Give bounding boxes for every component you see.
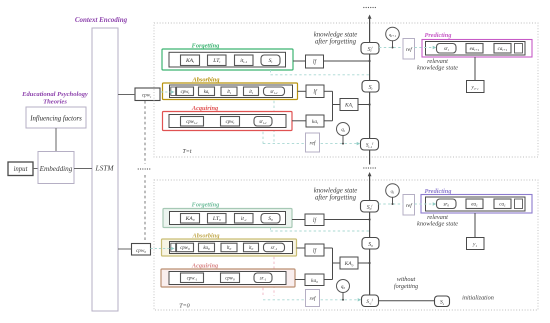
state box S_0 (362, 238, 379, 250)
wire: absorbing row to lf box (298, 90, 307, 92)
svg-text:cat+1: cat+1 (498, 47, 508, 52)
Acquiring module row (bottom) (161, 269, 295, 287)
wire: dashed time axis between cpw_t and cpw_0 (144, 101, 146, 164)
wire: q_t+1 stem (392, 41, 394, 48)
svg-text:knowledge state: knowledge state (417, 65, 458, 72)
Embedding box (38, 152, 74, 184)
state box S_t-1^f (361, 139, 379, 151)
cpw_t box (135, 88, 160, 101)
item ca_1 (494, 199, 511, 209)
wire: embedding to LSTM (74, 168, 92, 170)
item sr_0 (predicting) (437, 199, 457, 209)
wire: dashed cpw_0 to absorbing row with arrow (151, 248, 172, 250)
wire: state line S_t^f to S_t (369, 54, 371, 81)
item sr_t-1 (acquiring) (254, 117, 272, 127)
svg-text:input: input (14, 166, 29, 173)
wire: bracket joining lf and ka_0 into KA_0 (324, 247, 333, 249)
y_t+1 output box (467, 81, 485, 93)
item KA_t (181, 55, 200, 66)
Influencing factors box (26, 107, 86, 128)
svg-text:knowledge state: knowledge state (417, 221, 458, 228)
item ea_t+1 (466, 44, 483, 54)
svg-text:it0: it0 (249, 246, 254, 251)
question circle q_1 (386, 184, 400, 198)
wire: q_0 stem (342, 293, 344, 300)
wire: input to embedding (33, 168, 38, 170)
item ka_t (199, 87, 215, 96)
svg-text:after forgetting: after forgetting (315, 195, 357, 202)
item it_0 (244, 243, 259, 252)
wire: q_1 stem (392, 197, 394, 204)
wire: predicting to y_1 (474, 213, 476, 238)
Predicting module box (bottom) (421, 195, 532, 214)
dashed container box T=0 (154, 180, 538, 310)
item ea_1 (466, 199, 483, 209)
svg-text:Influencing factors: Influencing factors (29, 115, 82, 122)
item empty slot (predicting) (515, 44, 523, 54)
wire: LSTM to cpw_t (118, 94, 135, 96)
svg-text:q0: q0 (341, 285, 345, 290)
cpw_0 box (132, 244, 151, 256)
state box S_s (initialization) (435, 296, 450, 307)
item empty slot (predicting bottom) (515, 199, 523, 209)
Absorbing module row (top) (163, 83, 298, 100)
svg-text:srt-1: srt-1 (259, 120, 267, 125)
Forgetting module row (top) (162, 49, 293, 70)
ref box (right, bottom block) (403, 195, 415, 216)
item sr_-1 (264, 243, 285, 252)
svg-text:cpw0: cpw0 (225, 276, 235, 281)
question circle q_0 (337, 280, 350, 293)
item sr_t (predicting) (437, 44, 457, 54)
ellipsis between blocks (363, 167, 364, 168)
wire: dashed S_t feedback line (top) (270, 70, 272, 75)
svg-text:knowledge state: knowledge state (314, 32, 358, 39)
svg-text:cpw-1: cpw-1 (187, 276, 198, 281)
dashed container box T=t (154, 23, 538, 157)
wire: LSTM to cpw_0 (118, 248, 132, 250)
svg-text:T=t: T=t (182, 149, 191, 155)
state box S_t^f (361, 43, 379, 55)
state box S^f (initial, without forgetting) (362, 295, 379, 307)
svg-text:eat+1: eat+1 (470, 47, 480, 52)
wire: state line below S_t-1^f (369, 150, 371, 165)
item cpw_t (acquiring) (221, 117, 240, 127)
wire: acquiring row to ka_t box (292, 120, 306, 122)
svg-text:ea1: ea1 (471, 202, 478, 207)
wire: state line S_0^f to S_0 (369, 212, 371, 238)
wire: S^f to S_s initialization link (379, 300, 435, 302)
wire: q_t stem (342, 136, 344, 144)
Predicting module box (top) (422, 40, 532, 58)
state box S_0^f (361, 201, 379, 213)
LSTM box (92, 28, 118, 311)
lf box (forgetting output, bottom) (305, 214, 324, 226)
svg-text:sr0: sr0 (443, 202, 449, 207)
svg-text:Educational Psychology: Educational Psychology (21, 91, 88, 98)
svg-text:Predicting: Predicting (425, 32, 452, 39)
KA_t box (top) (340, 99, 358, 111)
item ca_t+1 (494, 44, 511, 54)
svg-text:lt0: lt0 (227, 246, 232, 251)
svg-text:cpwt: cpwt (226, 120, 236, 125)
item cpw_t (177, 87, 194, 96)
item ka_0 (199, 243, 215, 252)
item sr_t-1 (264, 87, 285, 96)
svg-text:Forgetting: Forgetting (192, 202, 220, 209)
Absorbing module row (bottom) (162, 239, 297, 256)
item it_-1 (235, 214, 254, 224)
svg-text:Predicting: Predicting (425, 188, 452, 195)
item S_0 (initial state input) (261, 214, 280, 224)
item LT_t (208, 55, 227, 66)
question circle q_t (337, 123, 350, 136)
item cpw_0 (177, 243, 194, 252)
KA_0 box (bottom) (340, 257, 358, 269)
item slot (arrow target) (171, 87, 176, 96)
svg-text:Theories: Theories (43, 99, 67, 106)
svg-text:initialization: initialization (462, 295, 494, 302)
wire: acquiring row to ka_0 box (295, 279, 305, 281)
ka_t box (acquiring output, top) (306, 115, 324, 127)
input box (8, 162, 33, 176)
wire: state line S_0 to S^f (369, 249, 371, 295)
wire: dashed S_t^f to predicting (top) (379, 47, 403, 49)
svg-text:sr-1: sr-1 (271, 246, 278, 251)
item it_t (244, 87, 259, 96)
wire: dashed reference line from sr items to S_t-1^f state (top block) (273, 96, 275, 144)
wire: predicting to y_t+1 (474, 57, 476, 81)
junction dot: KA_0 line on state line (bottom) (369, 262, 371, 264)
item LT_0 (208, 214, 227, 224)
svg-text:sr-1: sr-1 (260, 276, 267, 281)
svg-text:T=0: T=0 (179, 303, 189, 309)
lf box (absorbing output, bottom) (305, 244, 324, 256)
svg-text:after forgetting: after forgetting (315, 39, 357, 46)
arrowhead: reference into S^f (358, 298, 362, 301)
svg-text:cpwt-1: cpwt-1 (186, 120, 198, 125)
svg-text:ca1: ca1 (499, 202, 506, 207)
wire: dashed S_0 feedback line (bottom) (270, 228, 272, 232)
wire: main state line above S_t^f with up arrow (369, 17, 371, 43)
junction dot: KA_t line on state line (top) (369, 103, 371, 105)
wire: forgetting row to lf box (bottom) (292, 219, 305, 221)
wire: KA_0 to state line (358, 262, 370, 264)
item cpw_t-1 (181, 117, 204, 127)
svg-text:Context Encoding: Context Encoding (75, 16, 128, 24)
wire: state line S_t to S_t-1^f (369, 92, 371, 139)
item sr_-1 (acquiring) (254, 273, 272, 283)
item lt_0 (221, 243, 237, 252)
item cpw_-1 (181, 273, 204, 283)
svg-text:Embedding: Embedding (39, 165, 73, 173)
wire: forgetting row to lf box (293, 60, 306, 62)
Acquiring module row (top) (163, 112, 293, 131)
wire: state line above S_0^f with up arrow (369, 175, 371, 201)
item KA_0 (181, 214, 200, 224)
question circle q_t+1 (386, 27, 400, 41)
svg-text:cpwt: cpwt (181, 90, 191, 95)
item slot (arrow target, bottom) (171, 243, 176, 252)
ref box (left, top block) (306, 133, 320, 152)
wire: influencing factors to embedding (55, 128, 57, 152)
wire: dashed cpw_t to absorbing row with arrow (161, 91, 171, 93)
wire: dashed reference line from sr items to S^f state (bottom block) (273, 252, 275, 296)
svg-text:srt-1: srt-1 (270, 90, 278, 95)
svg-text:LSTM: LSTM (94, 163, 114, 172)
y_1 output box (467, 238, 485, 250)
wire: bracket joining lf and ka_t into KA_t (324, 90, 333, 92)
ellipsis above top block (363, 7, 364, 8)
wire: dashed S_0^f to predicting (bottom) (379, 203, 404, 205)
junction dot: lf line on state line (top) (369, 60, 371, 62)
svg-text:cpw0: cpw0 (180, 246, 190, 251)
svg-text:ka0: ka0 (203, 246, 210, 251)
wire: lf to state line (324, 60, 370, 62)
arrowhead: reference into S_t-1^f (357, 142, 361, 145)
junction dot: lf line on state line (bottom) (369, 218, 371, 220)
state box S_t (362, 81, 379, 93)
wire: absorbing row to lf box (bottom) (297, 247, 306, 249)
svg-text:knowledge state: knowledge state (314, 188, 358, 195)
item S_t (recurrent input) (261, 55, 280, 66)
lf box (absorbing output, top) (306, 85, 324, 98)
ref box (right, top block) (403, 39, 415, 60)
item cpw_0 (acquiring) (221, 273, 240, 283)
item lt_t (221, 87, 237, 96)
Forgetting module row (bottom) (163, 209, 292, 228)
ref box (left, bottom block) (306, 290, 320, 307)
lf box (forgetting output, top) (306, 55, 324, 68)
wire: lf to state line (bottom) (324, 219, 370, 221)
ellipsis dots on time axis (138, 168, 139, 169)
ka_0 box (acquiring output, bottom) (305, 274, 324, 286)
wire: KA_t to state line (358, 104, 370, 106)
svg-text:forgetting: forgetting (394, 283, 418, 290)
item it_t-1 (235, 55, 254, 66)
